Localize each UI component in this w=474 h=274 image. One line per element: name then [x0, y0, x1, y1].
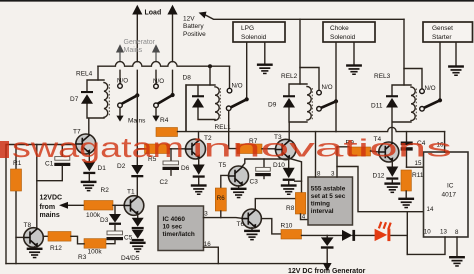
node 12VDC input arrow: [59, 202, 84, 209]
switch REL3 arm: [423, 98, 442, 108]
transistor T7: [76, 134, 96, 154]
svg-text:Genset: Genset: [432, 25, 453, 32]
wire T8 base stub: [16, 236, 24, 238]
wire R2 to T1 base: [113, 204, 125, 206]
svg-text:mains: mains: [40, 212, 60, 219]
svg-text:8: 8: [317, 170, 321, 177]
svg-text:R2: R2: [101, 187, 110, 194]
ground LPG: [257, 64, 273, 75]
svg-text:swagatam: swagatam: [12, 132, 184, 163]
wire timing output line: [302, 235, 408, 254]
ground genset: [448, 65, 464, 76]
watermark left block: [0, 141, 9, 158]
transistor T5: [229, 166, 249, 186]
resistor R10: [281, 230, 302, 240]
coil REL4: [104, 83, 109, 118]
wire generator feed branch: [326, 235, 328, 237]
svg-text:8: 8: [455, 229, 459, 236]
node Load: arrow 2 up: [167, 5, 177, 95]
resistor R9: [349, 147, 371, 156]
svg-text:Positive: Positive: [183, 31, 206, 38]
svg-text:T6: T6: [237, 221, 245, 228]
transistor T8: [24, 228, 44, 248]
wire T5 base to R6: [221, 175, 229, 188]
svg-text:N/O: N/O: [425, 85, 436, 92]
resistor R5: [145, 144, 170, 154]
diode D12: [386, 161, 398, 182]
wire T6 to R10: [261, 219, 281, 234]
svg-text:D12: D12: [373, 172, 385, 179]
svg-text:LPG: LPG: [241, 25, 254, 32]
svg-text:12V: 12V: [183, 16, 195, 23]
svg-text:IC 4060: IC 4060: [163, 216, 186, 223]
svg-text:T5: T5: [219, 162, 227, 169]
wire C1 top lead: [61, 145, 63, 157]
ground IC4017 pin8: [449, 256, 465, 267]
resistor R12: [43, 232, 71, 242]
node Mains output arrow 2: [152, 108, 159, 122]
svg-text:Choke: Choke: [330, 25, 349, 32]
ground R11: [398, 191, 414, 208]
svg-text:Generator: Generator: [124, 39, 156, 46]
resistor R4: [156, 128, 178, 137]
diode D10: [283, 168, 302, 185]
diode D11: [386, 95, 398, 107]
wire 555 pin8 to rail: [315, 132, 317, 177]
capacitor C3: [255, 167, 271, 178]
svg-text:R8: R8: [286, 205, 295, 212]
diode D6: [193, 159, 205, 185]
relay REL3 frame: [392, 85, 411, 143]
node Generator Mains: gray arrow 2: [152, 44, 160, 84]
svg-text:R12: R12: [50, 245, 62, 252]
wire C3 top stub: [263, 159, 265, 167]
relay REL1 frame: [186, 85, 215, 131]
wire main changeover bus with hops: [98, 62, 230, 67]
svg-text:T1: T1: [127, 189, 135, 196]
ground T5: [231, 186, 247, 199]
wire REL3 N/O feed: [404, 69, 422, 89]
svg-text:REL4: REL4: [76, 70, 93, 77]
wire R6 to pin3 line: [220, 211, 222, 218]
resistor R3: [84, 239, 106, 249]
relay REL4 frame: [87, 80, 104, 135]
wire REL1 pole to R7: [229, 111, 237, 149]
wire 555 pin3 up to R9: [337, 147, 349, 177]
wire LPG left lead down: [246, 43, 248, 98]
relay REL2 frame: [289, 84, 307, 140]
diode generator input: [321, 237, 334, 263]
svg-text:D9: D9: [268, 102, 277, 109]
switch REL2 contacts: [317, 90, 322, 111]
resistor R11: [401, 170, 411, 191]
wire C4 to IC4017 pin15: [407, 166, 424, 168]
svg-text:R11: R11: [412, 172, 424, 179]
wire bus left end down to REL4: [97, 66, 99, 80]
wire C1 bottom to T8 branch: [37, 166, 63, 181]
wire V+ rail with hop over REL3 drive: [178, 127, 445, 131]
svg-text:set at 5 sec: set at 5 sec: [311, 193, 346, 200]
svg-text:3: 3: [331, 170, 335, 177]
wire T2 collector to rail: [198, 132, 200, 141]
capacitor C4: [401, 142, 413, 168]
wire T7 base supply line: [6, 145, 76, 264]
svg-text:D10: D10: [273, 162, 285, 169]
switch REL2 arm: [320, 99, 338, 108]
wire T8 collector branch vertical: [36, 145, 38, 229]
wire T6 collector to R8: [255, 199, 295, 210]
wire R1 branch vertical: [15, 145, 17, 264]
wire rail to C4: [406, 132, 408, 142]
resistor R8: [295, 193, 305, 215]
diode D8: [192, 95, 204, 107]
svg-text:Solenoid: Solenoid: [241, 34, 267, 41]
svg-text:D3: D3: [100, 217, 109, 224]
svg-text:R10: R10: [281, 222, 293, 229]
svg-text:Solenoid: Solenoid: [330, 34, 356, 41]
box LPG Solenoid: [233, 22, 285, 42]
svg-text:IC: IC: [447, 183, 454, 190]
svg-text:13: 13: [440, 229, 447, 236]
wire pin8 to ground: [456, 237, 458, 256]
transistor T6: [242, 209, 261, 228]
transistor T3: [276, 139, 296, 159]
ground D1: [81, 181, 97, 192]
svg-text:D4/D5: D4/D5: [121, 255, 140, 262]
wire bus right end down to REL1 N/O: [229, 66, 231, 88]
svg-text:R6: R6: [217, 195, 225, 202]
svg-text:Battery: Battery: [183, 23, 204, 30]
svg-text:innovations: innovations: [192, 135, 452, 163]
svg-text:REL3: REL3: [374, 73, 391, 80]
svg-text:12V DC from Generator: 12V DC from Generator: [288, 268, 366, 274]
LED red indicator: [375, 222, 391, 241]
ground T8: [27, 247, 43, 259]
diode D2: [131, 165, 143, 177]
wire genset left lead down: [439, 43, 441, 99]
diode D4: [132, 215, 144, 230]
ground T6: [244, 228, 260, 241]
transistor T2: [186, 139, 206, 159]
svg-text:D6: D6: [181, 165, 190, 172]
svg-text:4017: 4017: [442, 192, 457, 199]
svg-text:N/O: N/O: [117, 78, 128, 85]
svg-text:D7: D7: [70, 96, 79, 103]
wire R4 to REL1 junction: [185, 85, 187, 131]
wire R9 to T4 base: [371, 151, 379, 152]
svg-text:100k: 100k: [86, 212, 101, 219]
capacitor C1: [54, 157, 70, 166]
ground D4 D5: [130, 242, 146, 253]
svg-text:N/O: N/O: [153, 78, 164, 85]
capacitor C5: [106, 231, 123, 244]
resistor R6: [215, 188, 226, 211]
svg-text:timer/latch: timer/latch: [163, 231, 195, 238]
wire bottom ground bus: [6, 263, 327, 265]
wire genset right lead: [455, 43, 457, 66]
svg-text:Load: Load: [145, 10, 162, 17]
node Load: arrow 1 up: [132, 5, 142, 96]
diode series output: [342, 230, 355, 241]
svg-text:100k: 100k: [88, 248, 103, 255]
svg-text:C5: C5: [124, 234, 133, 241]
label Generator Mains: [124, 39, 156, 54]
svg-text:REL2: REL2: [281, 73, 298, 80]
wire T5 collector to D10: [242, 159, 289, 168]
wire pin14 junction down to pin13 loop: [407, 212, 445, 255]
svg-text:R3: R3: [78, 254, 87, 261]
wire choke right lead: [353, 43, 355, 65]
wire T3 emitter to R8: [290, 159, 302, 193]
coil REL3: [411, 87, 416, 121]
svg-text:C2: C2: [160, 179, 169, 186]
wire 555 pin3 branch to IC4017 pin14: [337, 167, 424, 212]
node 12V DC from Generator arrow: [323, 263, 332, 271]
wire IC4060 pin3 to T6 base: [204, 217, 243, 220]
coil REL1: [215, 87, 220, 121]
svg-text:10: 10: [424, 229, 431, 236]
wire choke left lead down: [335, 43, 337, 100]
transistor T1: [124, 196, 144, 216]
wire REL2 N/O feed: [300, 68, 319, 91]
svg-text:R4: R4: [160, 117, 169, 124]
node Generator Mains: gray arrow 1: [116, 44, 124, 83]
svg-text:555 astable: 555 astable: [311, 185, 346, 192]
svg-text:D1: D1: [98, 165, 107, 172]
diode D7: [81, 91, 93, 104]
wire R7 to T3 base: [262, 148, 275, 150]
wire 12V to REL2: [299, 19, 301, 84]
wire R5 to T2 base: [170, 148, 186, 150]
wire R5 left stub: [137, 148, 144, 150]
switch REL4 pole2 contacts: [154, 84, 159, 108]
switch REL4 arm 2: [156, 93, 175, 105]
wire IC4060 pin16 to bottom bus: [204, 247, 219, 263]
ground D12: [384, 182, 400, 193]
svg-text:from: from: [40, 204, 56, 211]
svg-text:10 sec: 10 sec: [163, 224, 183, 231]
diode D1: [83, 154, 95, 181]
svg-text:12VDC: 12VDC: [40, 195, 63, 202]
svg-text:N/O: N/O: [232, 82, 243, 89]
svg-text:D11: D11: [371, 103, 383, 110]
wire R12 to R3: [71, 236, 84, 244]
box Choke Solenoid: [323, 22, 375, 42]
svg-text:N/O: N/O: [322, 84, 333, 91]
switch REL4 arm 1: [120, 93, 140, 105]
svg-text:T8: T8: [24, 222, 32, 229]
wire load sense vertical to T1: [136, 95, 138, 196]
node bus junction to REL1: [208, 64, 212, 85]
svg-text:14: 14: [427, 206, 434, 213]
svg-text:interval: interval: [311, 208, 334, 215]
wire R8 to 555 pin4: [301, 214, 309, 220]
wire REL2 arm node to rail: [335, 101, 337, 131]
svg-text:3: 3: [204, 211, 208, 218]
svg-text:Starter: Starter: [432, 34, 452, 41]
box IC 4017: [424, 152, 469, 237]
switch REL4 pole1 contacts: [118, 84, 123, 108]
box IC 4060: [158, 206, 204, 251]
ground choke: [346, 64, 362, 75]
ground D6: [191, 184, 207, 195]
svg-text:timing: timing: [311, 201, 330, 208]
resistor R2: [84, 201, 113, 211]
transistor T4: [379, 142, 399, 162]
svg-text:D2: D2: [117, 163, 126, 170]
diode D3: [109, 205, 121, 231]
wire LPG right lead: [264, 43, 266, 64]
svg-text:4: 4: [302, 214, 306, 221]
box Genset Starter: [423, 22, 473, 42]
capacitor C2: [163, 149, 180, 175]
node Mains output arrow 1: [116, 108, 123, 122]
coil REL2: [307, 87, 312, 121]
diode D5: [132, 230, 144, 241]
pin 16 IC4017: [437, 132, 445, 152]
svg-text:D8: D8: [183, 75, 192, 82]
box 555 astable: [308, 177, 353, 225]
switch REL1 contacts: [226, 88, 231, 110]
svg-text:C3: C3: [250, 179, 259, 186]
resistor R7: [237, 144, 262, 154]
switch REL1 arm: [230, 97, 249, 108]
switch REL3 contacts: [420, 89, 425, 111]
wire 12V battery positive line: [199, 12, 404, 20]
svg-text:Mains: Mains: [124, 47, 143, 54]
diode D9: [283, 95, 295, 107]
resistor R1: [11, 169, 22, 191]
label 12VDC from mains: [40, 195, 63, 220]
ground D10: [281, 184, 297, 195]
label 12V Battery Positive: [183, 16, 206, 38]
wire 12V to REL3: [403, 19, 405, 85]
